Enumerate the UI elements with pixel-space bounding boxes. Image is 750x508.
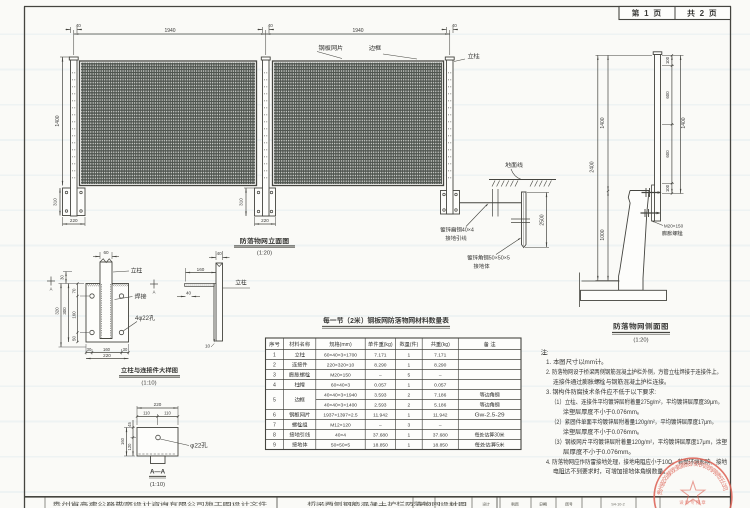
section A-A label phi22 bbox=[160, 439, 208, 450]
svg-text:–: – bbox=[379, 372, 382, 379]
svg-text:30: 30 bbox=[123, 347, 128, 353]
svg-text:柱帽: 柱帽 bbox=[294, 382, 305, 389]
svg-text:规格(mm): 规格(mm) bbox=[329, 341, 352, 348]
deck surface line left of barrier bbox=[582, 280, 620, 282]
svg-text:连接件: 连接件 bbox=[292, 362, 308, 369]
concrete barrier profile bbox=[619, 191, 649, 291]
detail dim 320 overall bbox=[55, 284, 87, 348]
svg-text:审核: 审核 bbox=[420, 502, 428, 508]
svg-text:37.680: 37.680 bbox=[373, 432, 388, 439]
svg-text:镀锌扁钢40×4: 镀锌扁钢40×4 bbox=[440, 226, 474, 234]
detail plate front view bbox=[86, 284, 129, 343]
post 1 cap bbox=[69, 57, 78, 60]
svg-text:M20×150: M20×150 bbox=[330, 372, 351, 379]
svg-text:接地引线: 接地引线 bbox=[289, 432, 310, 439]
svg-text:等边角钢: 等边角钢 bbox=[480, 402, 500, 409]
svg-text:–: – bbox=[439, 372, 442, 379]
svg-text:1937×1397×2.5: 1937×1397×2.5 bbox=[323, 412, 358, 419]
svg-text:(1:20): (1:20) bbox=[633, 335, 648, 344]
svg-text:（2）紧固件单面平均镀锌层附着量120g/m²，平均镀锌层厚: （2）紧固件单面平均镀锌层附着量120g/m²，平均镀锌层厚度17μm， bbox=[551, 417, 717, 426]
side view post bbox=[653, 52, 662, 221]
post 1 base connection plate bbox=[63, 188, 86, 216]
detail label weld bbox=[115, 292, 148, 301]
detail side view post bar bbox=[216, 263, 223, 341]
svg-text:贵州省高速公路勘察设计咨询有限公司施工图设计文件: 贵州省高速公路勘察设计咨询有限公司施工图设计文件 bbox=[53, 501, 269, 508]
notes block bbox=[541, 348, 728, 476]
svg-text:（1）立柱、连接件平均镀锌层附着量275g/m²，平均镀锌层: （1）立柱、连接件平均镀锌层附着量275g/m²，平均镀锌层厚度39μm， bbox=[551, 397, 723, 406]
svg-text:1: 1 bbox=[408, 362, 411, 369]
svg-text:钢板网片: 钢板网片 bbox=[319, 43, 344, 52]
detail plate top edge weld hatch bbox=[87, 284, 128, 286]
svg-text:M12×120: M12×120 bbox=[330, 422, 351, 429]
dim chain 1400 and 1000 left bbox=[596, 55, 620, 280]
svg-text:涂塑层厚度不小于0.076mm。: 涂塑层厚度不小于0.076mm。 bbox=[562, 427, 643, 436]
sheet outer frame right edge bbox=[730, 7, 732, 508]
svg-text:40: 40 bbox=[452, 23, 458, 29]
svg-text:M20×150: M20×150 bbox=[664, 224, 684, 230]
svg-text:A: A bbox=[50, 287, 53, 293]
svg-text:（3）钢板网片平均镀锌层附着量120g/m²，平均镀锌层厚度: （3）钢板网片平均镀锌层附着量120g/m²，平均镀锌层厚度17μm，涂塑 bbox=[551, 437, 728, 446]
title block divider 2 bbox=[496, 497, 498, 508]
ground hatch ticks group 2 bbox=[530, 181, 551, 187]
svg-text:220: 220 bbox=[70, 218, 78, 224]
dim 40 at post 2 bbox=[258, 23, 275, 33]
svg-text:40: 40 bbox=[76, 23, 82, 29]
svg-text:第 1 页: 第 1 页 bbox=[632, 8, 663, 19]
post 3 cap bbox=[445, 57, 454, 60]
svg-text:(1:10): (1:10) bbox=[150, 479, 165, 488]
svg-text:60: 60 bbox=[103, 250, 109, 256]
post 2 base plate bolt holes bbox=[257, 191, 273, 213]
svg-text:310: 310 bbox=[239, 198, 245, 206]
post 2 (square tube 60x40) bbox=[261, 57, 270, 216]
detail side view horizontal arm bbox=[185, 284, 214, 287]
svg-text:φ22孔: φ22孔 bbox=[190, 441, 208, 450]
svg-text:100: 100 bbox=[665, 184, 671, 192]
svg-text:1: 1 bbox=[408, 412, 411, 419]
svg-text:立柱: 立柱 bbox=[467, 51, 480, 60]
dim 220 post2 plate width bbox=[255, 217, 276, 226]
post 3 (square tube 60x40) bbox=[445, 57, 454, 214]
material table grid bbox=[266, 338, 522, 450]
side view connection plate edge bbox=[652, 185, 655, 221]
svg-text:防落物网侧面图: 防落物网侧面图 bbox=[613, 321, 669, 332]
svg-text:3: 3 bbox=[273, 372, 276, 379]
label ground line bbox=[505, 160, 524, 179]
svg-text:40×4: 40×4 bbox=[335, 432, 346, 439]
detail label 4 phi22 holes bbox=[124, 313, 155, 331]
svg-text:40: 40 bbox=[217, 251, 223, 257]
svg-text:30: 30 bbox=[60, 275, 66, 280]
svg-text:4φ22孔: 4φ22孔 bbox=[135, 313, 155, 322]
svg-text:镀锌角钢50×50×5: 镀锌角钢50×50×5 bbox=[467, 254, 510, 262]
svg-text:S4-10-2: S4-10-2 bbox=[611, 503, 625, 508]
detail side dim 40 top bbox=[209, 251, 230, 260]
svg-text:45: 45 bbox=[127, 422, 133, 427]
svg-text:2: 2 bbox=[273, 362, 276, 369]
svg-text:–: – bbox=[379, 422, 382, 429]
post 3 base plate bolt holes bbox=[443, 193, 458, 211]
svg-text:5: 5 bbox=[273, 397, 276, 404]
svg-text:220: 220 bbox=[154, 402, 162, 408]
red seal star bbox=[681, 482, 705, 505]
svg-text:600: 600 bbox=[665, 91, 671, 99]
grounding rod (angle steel) bbox=[522, 192, 527, 248]
dim line 1940 over panel 2 bbox=[266, 27, 450, 55]
svg-text:(1:10): (1:10) bbox=[141, 378, 156, 387]
title block top line bbox=[24, 496, 731, 498]
svg-text:1: 1 bbox=[408, 352, 411, 359]
svg-text:边框: 边框 bbox=[369, 43, 381, 52]
sheet outer frame top edge bbox=[24, 6, 731, 8]
svg-text:2400: 2400 bbox=[589, 161, 596, 172]
table title bbox=[322, 316, 450, 328]
section A-A bottom weld dashes bbox=[139, 453, 177, 455]
svg-text:7: 7 bbox=[273, 422, 276, 429]
svg-text:2500: 2500 bbox=[539, 214, 546, 225]
svg-text:立柱: 立柱 bbox=[294, 352, 305, 359]
label M20x150 expansion bolt bbox=[651, 221, 684, 238]
svg-text:每一节（2米）钢板网防落物网材料数量表: 每一节（2米）钢板网防落物网材料数量表 bbox=[323, 316, 450, 326]
section A-A dim 45 and 120 left bbox=[127, 420, 155, 456]
detail bottom dim chain 30 160 30 bbox=[85, 298, 130, 355]
svg-text:1400: 1400 bbox=[599, 117, 606, 128]
svg-text:等边角钢: 等边角钢 bbox=[480, 392, 500, 399]
svg-text:防落物网立面图: 防落物网立面图 bbox=[240, 237, 290, 247]
dim 2500 rod depth bbox=[525, 193, 549, 248]
post 1 base plate bolt holes bbox=[65, 191, 82, 212]
svg-text:层厚度不小于0.076mm。: 层厚度不小于0.076mm。 bbox=[563, 447, 635, 456]
svg-text:每处估算30米: 每处估算30米 bbox=[475, 432, 505, 439]
section marker A left bbox=[47, 277, 55, 293]
svg-text:地面线: 地面线 bbox=[505, 160, 524, 169]
svg-text:7.171: 7.171 bbox=[434, 352, 447, 359]
svg-text:7.171: 7.171 bbox=[374, 352, 387, 359]
elevation title bbox=[234, 237, 295, 257]
svg-text:60×40×3: 60×40×3 bbox=[331, 382, 351, 389]
svg-text:1400: 1400 bbox=[680, 117, 687, 128]
svg-text:每处估算5米: 每处估算5米 bbox=[475, 442, 505, 449]
detail side dim 160 bbox=[186, 267, 217, 282]
svg-text:310: 310 bbox=[53, 198, 59, 206]
svg-text:220: 220 bbox=[103, 353, 111, 359]
detail side dim 40 left bbox=[177, 291, 200, 298]
svg-text:6: 6 bbox=[273, 412, 276, 419]
svg-text:120: 120 bbox=[127, 443, 133, 451]
label galvanized flat steel 40x4 bbox=[440, 203, 488, 242]
svg-text:制图: 制图 bbox=[511, 503, 519, 508]
svg-text:日期: 日期 bbox=[539, 503, 547, 508]
detail dim 30 top left bbox=[60, 272, 73, 284]
post 2 base connection plate bbox=[255, 188, 276, 216]
svg-text:A—A: A—A bbox=[150, 467, 166, 476]
svg-text:钢板网片: 钢板网片 bbox=[289, 412, 311, 419]
svg-text:连接件通过膨胀螺栓与钢筋混凝土护栏连接。: 连接件通过膨胀螺栓与钢筋混凝土护栏连接。 bbox=[553, 377, 670, 386]
svg-text:1: 1 bbox=[273, 352, 276, 359]
svg-text:10: 10 bbox=[205, 344, 211, 350]
svg-text:220: 220 bbox=[261, 218, 269, 224]
svg-text:160: 160 bbox=[197, 267, 205, 273]
svg-text:0.057: 0.057 bbox=[434, 382, 447, 389]
svg-text:300: 300 bbox=[62, 307, 68, 315]
red company seal (circular stamp) bbox=[654, 458, 732, 508]
svg-text:序号: 序号 bbox=[268, 341, 279, 348]
svg-text:40×40×3×1400: 40×40×3×1400 bbox=[324, 402, 357, 409]
svg-text:18.850: 18.850 bbox=[433, 442, 448, 449]
anchor bolt top bbox=[642, 188, 662, 197]
svg-text:焊接: 焊接 bbox=[134, 292, 147, 301]
svg-text:1. 本图尺寸以mm计。: 1. 本图尺寸以mm计。 bbox=[546, 357, 608, 366]
svg-text:50×50×5: 50×50×5 bbox=[331, 442, 351, 449]
svg-text:注:: 注: bbox=[541, 348, 549, 357]
svg-text:接地体: 接地体 bbox=[473, 262, 490, 270]
section A-A dim 110 110 bbox=[136, 411, 179, 426]
svg-text:共重(kg): 共重(kg) bbox=[431, 341, 451, 348]
label mesh sheet (steel plate mesh) bbox=[317, 43, 343, 59]
svg-text:2: 2 bbox=[408, 392, 411, 399]
svg-text:320: 320 bbox=[55, 307, 61, 315]
svg-text:8: 8 bbox=[273, 432, 276, 439]
label galvanized angle steel 50x50x5 bbox=[467, 238, 521, 270]
svg-text:7.186: 7.186 bbox=[434, 392, 447, 399]
dim 310 post2 buried bbox=[239, 188, 255, 216]
dim 310 post1 buried bbox=[53, 188, 61, 216]
svg-text:40: 40 bbox=[268, 23, 274, 29]
svg-text:50: 50 bbox=[72, 336, 78, 341]
title block divider 1 bbox=[276, 497, 278, 508]
detail post weld hatch edges bbox=[100, 284, 112, 339]
section A-A dim 220 bbox=[137, 402, 178, 425]
ground hatch ticks group 1 bbox=[492, 181, 518, 187]
detail plate holes 4xphi22 bbox=[90, 294, 124, 335]
svg-text:Gw-2.5-29: Gw-2.5-29 bbox=[475, 412, 505, 419]
detail left dim chain 70 160 50 bbox=[72, 282, 90, 343]
svg-text:1000: 1000 bbox=[599, 229, 606, 240]
svg-text:设计: 设计 bbox=[481, 502, 490, 508]
svg-text:立柱: 立柱 bbox=[130, 266, 143, 275]
mesh panel 2 frame bbox=[273, 61, 444, 186]
grounding lead wire (flat steel) bbox=[460, 202, 525, 204]
dim 2400 total height bbox=[589, 55, 653, 280]
dim 40 at post 3 bbox=[442, 23, 459, 33]
sheet outer frame left edge bbox=[24, 7, 26, 508]
title block project name text bbox=[53, 501, 468, 508]
svg-text:600: 600 bbox=[665, 150, 671, 158]
svg-text:60×40×3×1700: 60×40×3×1700 bbox=[324, 352, 357, 359]
svg-text:5.186: 5.186 bbox=[434, 402, 447, 409]
svg-text:1940: 1940 bbox=[352, 27, 363, 34]
svg-text:11.942: 11.942 bbox=[373, 412, 388, 419]
post 1 (square tube 60x40) bbox=[69, 57, 78, 216]
svg-text:3. 钢构件防腐技术条件应不低于以下要求:: 3. 钢构件防腐技术条件应不低于以下要求: bbox=[546, 387, 656, 396]
label frame (bian kuang) bbox=[369, 43, 417, 59]
post 3 base connection plate bbox=[441, 191, 460, 215]
ground line (di mian xian) bbox=[489, 179, 556, 181]
svg-text:2: 2 bbox=[408, 402, 411, 409]
dim 1400 right outer bbox=[680, 55, 687, 193]
svg-text:司: 司 bbox=[720, 484, 730, 492]
svg-text:设计专用章: 设计专用章 bbox=[678, 499, 707, 506]
svg-text:立柱与连接件大样图: 立柱与连接件大样图 bbox=[121, 366, 178, 375]
section A-A hole bbox=[156, 435, 161, 440]
rod break marks bbox=[511, 219, 530, 223]
svg-text:3: 3 bbox=[408, 422, 411, 429]
anchor bolt bottom bbox=[641, 209, 661, 217]
table header row bbox=[268, 341, 496, 348]
section A-A dim 160 left bbox=[120, 428, 135, 457]
svg-text:桥梁两侧钢筋混凝土护栏防落物网设计图: 桥梁两侧钢筋混凝土护栏防落物网设计图 bbox=[307, 501, 468, 508]
detail dim 60 post width bbox=[93, 250, 119, 259]
svg-text:40×40×3×1940: 40×40×3×1940 bbox=[324, 392, 357, 399]
svg-text:4: 4 bbox=[273, 382, 276, 389]
svg-text:单件重(kg): 单件重(kg) bbox=[367, 341, 393, 348]
svg-text:膨胀螺栓: 膨胀螺栓 bbox=[288, 372, 311, 379]
svg-text:图号: 图号 bbox=[565, 503, 573, 508]
svg-text:膨胀螺栓: 膨胀螺栓 bbox=[661, 230, 684, 237]
section marker A right bbox=[150, 280, 158, 296]
section A-A post stub bbox=[151, 456, 166, 464]
deck edge vertical line bbox=[579, 273, 581, 308]
svg-text:8.290: 8.290 bbox=[434, 362, 447, 369]
svg-text:11.942: 11.942 bbox=[433, 412, 448, 419]
section A-A title bbox=[149, 467, 166, 489]
svg-text:1: 1 bbox=[408, 382, 411, 389]
svg-text:9: 9 bbox=[273, 442, 276, 449]
base slab bbox=[581, 290, 667, 300]
mesh panel 1 expanded-metal fill bbox=[81, 63, 255, 185]
wire break marks bbox=[493, 189, 499, 217]
svg-text:(1:20): (1:20) bbox=[257, 248, 272, 257]
svg-text:5: 5 bbox=[408, 372, 411, 379]
label post (li zhu) elevation bbox=[454, 51, 480, 62]
mesh panel 1 frame bbox=[80, 61, 257, 186]
svg-text:立柱: 立柱 bbox=[235, 278, 248, 287]
detail front title bbox=[119, 366, 180, 387]
svg-text:电阻达不到要求时，可增加接地体角钢数量。: 电阻达不到要求时，可增加接地体角钢数量。 bbox=[553, 467, 669, 476]
table body rows bbox=[273, 352, 505, 449]
svg-text:18.850: 18.850 bbox=[373, 442, 388, 449]
detail dim 300 bbox=[62, 284, 69, 343]
detail side dim 10 plate thickness bbox=[205, 339, 215, 350]
svg-text:30: 30 bbox=[87, 347, 92, 353]
svg-text:数量(件): 数量(件) bbox=[399, 341, 418, 348]
title block small cells text bbox=[420, 502, 625, 508]
side view title bbox=[612, 321, 670, 344]
svg-text:复核: 复核 bbox=[448, 502, 457, 508]
svg-text:接地体: 接地体 bbox=[292, 442, 308, 449]
svg-text:160: 160 bbox=[120, 437, 126, 445]
section A-A plate bbox=[137, 428, 178, 457]
mesh panel 2 expanded-metal fill bbox=[274, 63, 442, 185]
svg-text:备 注: 备 注 bbox=[484, 341, 497, 348]
svg-text:0.057: 0.057 bbox=[374, 382, 387, 389]
post 2 cap bbox=[261, 57, 270, 60]
detail post front view bbox=[100, 259, 112, 339]
svg-text:110: 110 bbox=[164, 411, 171, 417]
svg-text:3.593: 3.593 bbox=[374, 392, 387, 399]
title block cell dividers bbox=[45, 497, 660, 508]
dim 1400 mesh height left bbox=[54, 57, 70, 186]
svg-text:2. 防落物网设于桥梁两侧钢筋混凝土护栏外侧，方管立柱焊接于: 2. 防落物网设于桥梁两侧钢筋混凝土护栏外侧，方管立柱焊接于连接件上， bbox=[546, 367, 722, 376]
svg-text:110: 110 bbox=[143, 411, 150, 417]
dim line 1940 over panel 1 bbox=[74, 27, 266, 55]
svg-text:37.680: 37.680 bbox=[433, 432, 448, 439]
svg-text:边框: 边框 bbox=[294, 397, 304, 404]
svg-text:接地引线: 接地引线 bbox=[445, 234, 467, 242]
svg-text:100: 100 bbox=[665, 56, 671, 64]
svg-text:涂塑层厚度不小于0.076mm。: 涂塑层厚度不小于0.076mm。 bbox=[562, 407, 643, 416]
svg-text:1940: 1940 bbox=[164, 27, 175, 34]
svg-text:1: 1 bbox=[408, 432, 411, 439]
svg-text:–: – bbox=[439, 422, 442, 429]
svg-text:8.290: 8.290 bbox=[374, 362, 387, 369]
dim 220 post1 plate width bbox=[63, 217, 86, 226]
svg-text:2.593: 2.593 bbox=[374, 402, 387, 409]
svg-text:70: 70 bbox=[72, 288, 78, 293]
detail side label post bbox=[223, 278, 251, 289]
svg-text:螺栓组: 螺栓组 bbox=[292, 422, 308, 429]
svg-text:1: 1 bbox=[408, 442, 411, 449]
svg-text:1400: 1400 bbox=[54, 115, 61, 126]
dim 40 at post 1 bbox=[66, 23, 83, 33]
dim chain 100 600 600 100 right of post bbox=[662, 54, 684, 194]
svg-text:A: A bbox=[153, 290, 156, 296]
svg-text:40: 40 bbox=[186, 291, 192, 297]
page number box bbox=[619, 7, 731, 20]
svg-text:材料名称: 材料名称 bbox=[289, 341, 311, 348]
svg-text:220×320×10: 220×320×10 bbox=[327, 362, 355, 369]
detail side view plate strip (10 thick) bbox=[214, 284, 216, 342]
svg-text:共 2 页: 共 2 页 bbox=[687, 8, 718, 19]
detail dim 220 overall width bbox=[86, 353, 129, 359]
svg-text:160: 160 bbox=[72, 311, 78, 319]
detail label post bbox=[113, 266, 143, 275]
